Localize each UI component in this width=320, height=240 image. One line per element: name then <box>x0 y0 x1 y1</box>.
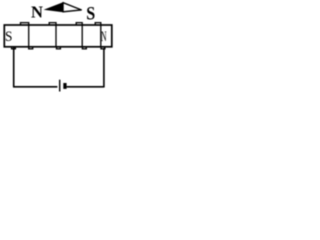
svg-text:S: S <box>86 3 95 23</box>
svg-text:S: S <box>5 29 12 45</box>
svg-text:N: N <box>31 3 43 22</box>
svg-text:N: N <box>101 27 107 44</box>
